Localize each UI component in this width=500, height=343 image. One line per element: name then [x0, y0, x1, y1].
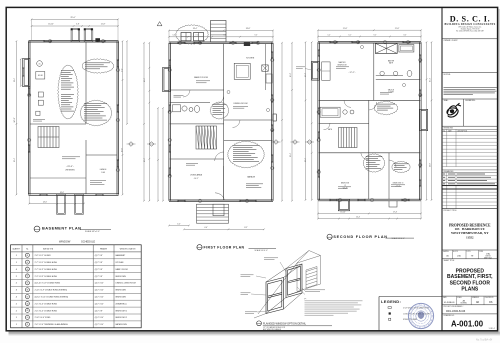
svg-text:~23'-3"~: ~23'-3"~ — [66, 166, 75, 168]
svg-text:11'-8": 11'-8" — [395, 28, 400, 30]
svg-text:(2) 2" X 8": (2) 2" X 8" — [95, 276, 103, 278]
svg-text:34'-6": 34'-6" — [60, 192, 65, 194]
svg-text:17'-4": 17'-4" — [393, 211, 398, 213]
svg-text:(2) 2" X 8": (2) 2" X 8" — [95, 255, 103, 257]
svg-text:3'-8": 3'-8" — [76, 24, 80, 26]
svg-text:KITCHEN: KITCHEN — [116, 262, 124, 264]
svg-text:BEDROOM: BEDROOM — [341, 182, 350, 184]
svg-text:9'-2": 9'-2" — [122, 68, 124, 72]
svg-text:No.7cc/BA-r9f: No.7cc/BA-r9f — [476, 338, 492, 342]
svg-text:BEDROOM: BEDROOM — [338, 65, 347, 67]
svg-text:6'-0": 6'-0" — [177, 223, 181, 225]
svg-text:BLOCK: BLOCK — [453, 251, 458, 253]
svg-text:13'-4": 13'-4" — [14, 157, 16, 162]
svg-text:BEDROOM #2: BEDROOM #2 — [116, 310, 128, 312]
svg-text:(2) 2" X 8": (2) 2" X 8" — [95, 269, 103, 271]
svg-text:DINING ROOM: DINING ROOM — [234, 103, 248, 105]
svg-text:PROJECT/JOB NUMBER #: PROJECT/JOB NUMBER # — [444, 306, 464, 308]
svg-text:SHEET TITLE: SHEET TITLE — [444, 260, 456, 262]
svg-text:DS: DS — [489, 302, 493, 304]
svg-text:2'-6" X 4'-6" DOUBLE HUNG: 2'-6" X 4'-6" DOUBLE HUNG — [35, 303, 58, 305]
svg-text:LIVING AREA: LIVING AREA — [190, 174, 203, 177]
svg-text:0001-10904-B-046: 0001-10904-B-046 — [446, 311, 466, 313]
svg-text:(2) 2" X 8": (2) 2" X 8" — [95, 310, 103, 312]
svg-text:05: 05 — [26, 283, 28, 285]
svg-text:11552: 11552 — [466, 235, 474, 239]
svg-text:(2) 2" X 10": (2) 2" X 10" — [95, 324, 104, 326]
svg-text:11: 11 — [27, 324, 29, 326]
svg-text:2'-10" X 4'-9" DOUBLE HUNG (EG: 2'-10" X 4'-9" DOUBLE HUNG (EGRESS) — [35, 290, 68, 292]
svg-text:8'-8": 8'-8" — [224, 35, 227, 37]
svg-text:01: 01 — [26, 255, 28, 257]
svg-text:09: 09 — [26, 310, 28, 312]
svg-text:15'-0": 15'-0" — [122, 147, 124, 152]
svg-text:OIL: OIL — [38, 63, 40, 65]
svg-text:SCALE 1/4"=1'-0": SCALE 1/4"=1'-0" — [85, 230, 100, 233]
svg-text:14'-6": 14'-6" — [144, 77, 146, 82]
svg-text:02: 02 — [26, 262, 28, 264]
svg-text:13'-10": 13'-10" — [48, 24, 54, 26]
svg-text:24'-8": 24'-8" — [14, 117, 16, 122]
svg-text:HEADER: HEADER — [100, 247, 108, 250]
svg-text:BASEMENT, FIRST,: BASEMENT, FIRST, — [447, 274, 493, 280]
svg-text:(2) 2" X 10": (2) 2" X 10" — [95, 303, 104, 305]
svg-text:(2) 2" X 10": (2) 2" X 10" — [95, 290, 104, 292]
svg-text:03: 03 — [26, 269, 28, 271]
svg-text:12'-4": 12'-4" — [290, 152, 292, 157]
svg-text:11'-4": 11'-4" — [14, 78, 16, 83]
svg-text:(2) 4" X 10": (2) 4" X 10" — [95, 317, 104, 319]
svg-text:(2)2'-6" X 4'-6" DOUBLE HUNG (: (2)2'-6" X 4'-6" DOUBLE HUNG (EGRESS) — [35, 296, 69, 298]
svg-text:SCALE 1/4"=1'-0": SCALE 1/4"=1'-0" — [255, 249, 269, 252]
svg-text:~14'-2": ~14'-2" — [193, 178, 199, 180]
svg-text:SIGNATURE:: SIGNATURE: — [465, 99, 476, 102]
svg-text:18'-8": 18'-8" — [246, 28, 251, 30]
svg-text:PLANS: PLANS — [461, 287, 479, 293]
svg-text:A-001.00: A-001.00 — [451, 319, 484, 328]
svg-text:1 OF 4: 1 OF 4 — [488, 328, 495, 330]
svg-text:14'-2": 14'-2" — [305, 72, 307, 77]
svg-text:07: 07 — [26, 296, 28, 298]
svg-text:18'-4": 18'-4" — [193, 28, 198, 30]
svg-text:GARAGE: GARAGE — [247, 176, 256, 179]
svg-text:11'-8": 11'-8" — [101, 24, 106, 26]
svg-text:10'-4": 10'-4" — [356, 216, 360, 218]
svg-text:BEDROOM #2: BEDROOM #2 — [116, 317, 128, 319]
svg-text:~17'-2"~: ~17'-2"~ — [348, 72, 356, 74]
svg-text:08: 08 — [26, 303, 28, 305]
svg-text:BEDROOMS: BEDROOMS — [116, 296, 127, 298]
svg-text:SECOND FLOOR PLAN: SECOND FLOOR PLAN — [333, 235, 387, 239]
svg-text:2'-7" X 3'-5" DOUBLE HUNG: 2'-7" X 3'-5" DOUBLE HUNG — [35, 262, 58, 264]
svg-text:OWNER / CLIENT: OWNER / CLIENT — [444, 40, 458, 42]
svg-text:(2) 4" X 10": (2) 4" X 10" — [95, 283, 104, 285]
svg-text:9'-6": 9'-6" — [255, 35, 258, 37]
svg-text:16'-10": 16'-10" — [340, 211, 346, 213]
svg-text:2'-6" X 2'-6" TEMPERED GLASS A: 2'-6" X 2'-6" TEMPERED GLASS AWNING — [35, 323, 69, 326]
svg-text:11'-8": 11'-8" — [343, 28, 348, 30]
svg-text:ZONE: ZONE — [479, 251, 483, 253]
svg-text:FAMILY ROOM: FAMILY ROOM — [194, 76, 208, 79]
svg-text:BEDROOM #3: BEDROOM #3 — [393, 182, 404, 184]
svg-text:12'-6": 12'-6" — [305, 157, 307, 162]
svg-text:15'-4": 15'-4" — [430, 77, 432, 82]
svg-text:2'-10" X 4'-6" FIXED: 2'-10" X 4'-6" FIXED — [35, 317, 51, 319]
svg-text:5'-4": 5'-4" — [328, 34, 331, 36]
svg-text:04: 04 — [26, 276, 28, 278]
svg-text:WEST HEMPSTEAD, NY: WEST HEMPSTEAD, NY — [451, 231, 489, 235]
svg-text:5'-8": 5'-8" — [173, 35, 176, 37]
svg-text:CHECKED BY: CHECKED BY — [485, 297, 494, 299]
svg-text:2'-3" X 3'-9" DOUBLE HUNG: 2'-3" X 3'-9" DOUBLE HUNG — [35, 276, 58, 278]
svg-text:FAMILY ROOM: FAMILY ROOM — [116, 268, 129, 271]
svg-text:13'-2": 13'-2" — [144, 157, 146, 162]
svg-text:SIZE (W X H): SIZE (W X H) — [43, 248, 54, 250]
svg-text:BASEMENT: BASEMENT — [116, 254, 127, 257]
svg-text:BATHROOMS: BATHROOMS — [116, 323, 128, 326]
svg-text:DINING & LIVING ROOM: DINING & LIVING ROOM — [116, 283, 136, 285]
svg-text:6'-2": 6'-2" — [349, 34, 352, 36]
svg-text:(2)2'-10" X 4'-9" DOUBLE HUNG: (2)2'-10" X 4'-9" DOUBLE HUNG — [35, 283, 61, 285]
svg-text:2'-6" X 4'-6" DOUBLE HUNG: 2'-6" X 4'-6" DOUBLE HUNG — [35, 310, 58, 312]
svg-text:BASEMENT PLAN: BASEMENT PLAN — [42, 226, 81, 231]
svg-text:FLANGED WINDOW OPTION DETAIL: FLANGED WINDOW OPTION DETAIL — [263, 323, 307, 326]
svg-text:SCHEDULE: SCHEDULE — [81, 239, 95, 243]
svg-text:11'-8": 11'-8" — [430, 163, 432, 168]
svg-text:KITCHEN: KITCHEN — [246, 57, 255, 59]
svg-text:LEGEND:: LEGEND: — [381, 299, 401, 304]
svg-text:(STAIRWELL): (STAIRWELL) — [116, 302, 127, 305]
svg-text:(2) 2" X 10": (2) 2" X 10" — [95, 296, 104, 298]
svg-text:7'-2": 7'-2" — [196, 35, 199, 37]
svg-text:SCALE 1/4"=1'-0": SCALE 1/4"=1'-0" — [392, 237, 406, 240]
svg-text:BEDROOMS: BEDROOMS — [116, 276, 127, 278]
svg-text:2'-8" X 3'-2" SLIDER: 2'-8" X 3'-2" SLIDER — [35, 255, 52, 257]
svg-text:4'-0": 4'-0" — [204, 227, 208, 229]
svg-text:SEAL:: SEAL: — [444, 99, 449, 102]
svg-text:Tel: (516) 209-6995 Fax: (516: Tel: (516) 209-6995 Fax: (516) 328-3397 — [456, 30, 484, 33]
svg-text:NOTED: NOTED — [461, 303, 468, 305]
svg-text:01-JUNE-09: 01-JUNE-09 — [444, 302, 454, 304]
svg-text:9'-0": 9'-0" — [374, 34, 377, 36]
svg-text:WINDOW: WINDOW — [59, 239, 71, 243]
svg-text:PROJECT TITLE: PROJECT TITLE — [444, 210, 458, 212]
svg-text:BOILER: BOILER — [38, 75, 43, 77]
svg-text:(2) 2" X 8": (2) 2" X 8" — [95, 262, 103, 264]
svg-text:LOT/S: LOT/S — [467, 251, 471, 253]
svg-text:BEDROOMS: BEDROOMS — [116, 290, 127, 292]
svg-text:8'-6": 8'-6" — [404, 34, 407, 36]
svg-text:29'-0": 29'-0" — [70, 17, 75, 19]
svg-text:2'-7" X 4'-9" DOUBLE HUNG: 2'-7" X 4'-9" DOUBLE HUNG — [35, 269, 58, 271]
svg-text:8'-2": 8'-2" — [244, 227, 248, 229]
svg-text:AD: AD — [476, 301, 480, 304]
svg-text:24'-0": 24'-0" — [43, 201, 48, 203]
svg-text:16'-8": 16'-8" — [290, 72, 292, 77]
svg-text:DESCRIPTION: DESCRIPTION — [458, 130, 468, 132]
svg-text:06: 06 — [26, 290, 28, 292]
svg-text:10: 10 — [26, 317, 28, 319]
svg-text:NOTES:: NOTES: — [444, 74, 452, 76]
svg-text:FIRST FLOOR PLAN: FIRST FLOOR PLAN — [204, 245, 245, 249]
svg-text:UNFINISHED: UNFINISHED — [65, 170, 76, 172]
